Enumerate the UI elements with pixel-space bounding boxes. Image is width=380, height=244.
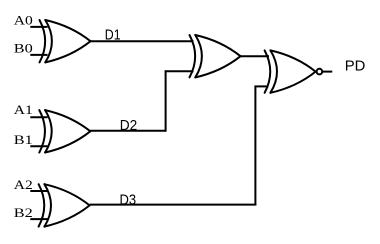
wire B2 to U3 [30, 218, 47, 220]
wire D3 horizontal: U3 output [90, 204, 257, 206]
wire A1 to U2 [30, 116, 47, 118]
wire D2 vertical riser [165, 70, 167, 131]
svg-text:D2: D2 [120, 118, 138, 134]
XOR gate U1 [40, 20, 91, 62]
svg-text:B1: B1 [14, 132, 33, 147]
wire D1: U1 output to U4 upper input [91, 40, 194, 42]
wire PD: U5 output [323, 71, 332, 73]
wire B1 to U2 [30, 145, 47, 147]
wire U4 output to U5 upper input [241, 55, 270, 57]
svg-text:B0: B0 [14, 41, 33, 56]
svg-text:D3: D3 [120, 192, 137, 208]
svg-text:B2: B2 [14, 205, 33, 220]
XOR gate U4 [190, 35, 241, 77]
XNOR gate U5 body [265, 50, 316, 92]
wire A0 to U1 [30, 26, 47, 28]
XOR gate U3 [39, 184, 90, 226]
wire D2 into U4 lower input [165, 70, 194, 72]
svg-text:A2: A2 [14, 177, 33, 192]
wire D3 into U5 lower input [255, 85, 269, 87]
XOR gate U2 [39, 110, 90, 152]
wire D3 vertical riser [254, 86, 256, 206]
wire A2 to U3 [30, 190, 47, 192]
wire B0 to U1 [30, 54, 47, 56]
svg-text:PD: PD [345, 58, 366, 74]
svg-text:A0: A0 [14, 13, 33, 28]
svg-text:A1: A1 [14, 102, 33, 117]
wire D2 horizontal: U2 output [90, 130, 166, 132]
XNOR gate U5 output bubble [317, 69, 323, 75]
svg-text:D1: D1 [105, 28, 121, 44]
